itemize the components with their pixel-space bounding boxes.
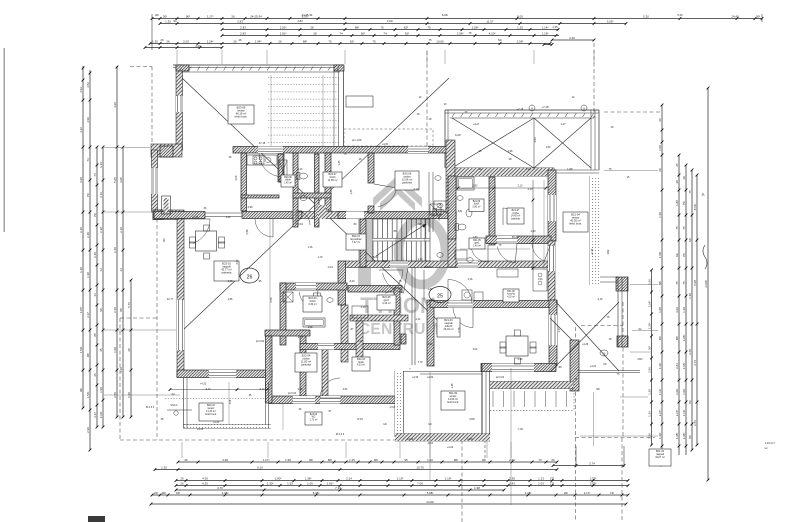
svg-text:12²: 12² [428, 423, 432, 426]
svg-text:2.83: 2.83 [240, 31, 246, 35]
svg-text:75: 75 [427, 25, 431, 29]
svg-text:2.83: 2.83 [237, 19, 243, 23]
svg-text:5,90 m²: 5,90 m² [473, 205, 481, 208]
svg-text:8.03²: 8.03² [302, 14, 309, 18]
svg-text:4.36: 4.36 [79, 127, 83, 133]
svg-text:26: 26 [231, 14, 235, 18]
svg-text:2.17²: 2.17² [584, 491, 591, 495]
svg-text:parketta: parketta [511, 217, 520, 220]
svg-text:5.08: 5.08 [693, 280, 697, 286]
svg-text:4.70: 4.70 [217, 486, 223, 490]
svg-text:26: 26 [184, 458, 188, 462]
svg-text:2.27²: 2.27² [658, 410, 662, 417]
svg-text:1.93: 1.93 [287, 481, 293, 485]
svg-text:2.03: 2.03 [183, 39, 189, 43]
svg-text:1,64²: 1,64² [647, 301, 651, 308]
svg-text:8,23: 8,23 [350, 280, 355, 283]
svg-text:8,23²: 8,23² [455, 134, 461, 137]
svg-text:1,38: 1,38 [647, 389, 651, 395]
svg-text:M 3,3 II: M 3,3 II [146, 406, 155, 409]
svg-text:-0,33: -0,33 [427, 442, 433, 445]
svg-text:1,40 m²: 1,40 m² [473, 244, 481, 247]
svg-text:+4,25: +4,25 [192, 216, 199, 219]
svg-text:28: 28 [127, 348, 131, 352]
svg-text:24.08: 24.08 [704, 280, 708, 288]
svg-text:1.27: 1.27 [560, 122, 566, 126]
svg-text:2.18: 2.18 [99, 227, 103, 233]
svg-text:12²: 12² [603, 363, 607, 366]
svg-text:1.38: 1.38 [86, 272, 90, 278]
svg-text:1,36²: 1,36² [647, 323, 651, 330]
svg-text:-0,33: -0,33 [389, 406, 395, 409]
svg-text:90²: 90² [186, 14, 190, 18]
svg-text:1.08: 1.08 [658, 307, 662, 313]
svg-text:B24: B24 [383, 260, 388, 263]
svg-text:1,50: 1,50 [538, 278, 543, 281]
svg-text:M 16: M 16 [357, 418, 363, 421]
svg-text:2,91²: 2,91² [387, 19, 393, 23]
svg-text:56²: 56² [596, 388, 600, 391]
svg-text:1,25: 1,25 [552, 25, 558, 29]
svg-text:27²: 27² [550, 481, 554, 485]
svg-text:2.40: 2.40 [93, 252, 97, 258]
svg-text:44,07 m²: 44,07 m² [655, 456, 665, 459]
svg-text:-0,34: -0,34 [297, 223, 303, 226]
svg-text:2,10: 2,10 [361, 306, 366, 309]
svg-text:1.38²: 1.38² [682, 433, 686, 440]
svg-text:255-00: 255-00 [424, 266, 432, 269]
svg-text:1.08: 1.08 [658, 145, 662, 151]
svg-text:2.40: 2.40 [79, 227, 83, 233]
svg-text:parketta: parketta [301, 363, 311, 367]
svg-text:2.38: 2.38 [509, 476, 515, 480]
svg-text:3.02: 3.02 [675, 307, 679, 313]
svg-text:42,77: 42,77 [167, 298, 174, 301]
svg-text:7.06: 7.06 [417, 481, 423, 485]
svg-text:1,70: 1,70 [318, 256, 323, 259]
svg-text:62²: 62² [350, 39, 354, 43]
svg-text:4,33 m²: 4,33 m² [382, 302, 391, 305]
svg-text:74²: 74² [610, 491, 614, 495]
svg-text:88: 88 [119, 308, 123, 312]
svg-text:44,01 m²: 44,01 m² [443, 327, 453, 331]
svg-text:+4,20: +4,20 [427, 376, 434, 379]
svg-text:75: 75 [682, 226, 686, 230]
svg-text:2,10: 2,10 [518, 185, 523, 188]
svg-text:25: 25 [99, 348, 103, 352]
svg-text:6(6): 6(6) [328, 210, 333, 213]
svg-text:2.27²: 2.27² [675, 410, 679, 417]
svg-text:1.03: 1.03 [538, 481, 544, 485]
svg-text:2,11: 2,11 [416, 318, 421, 321]
svg-text:+4,01: +4,01 [590, 364, 597, 368]
svg-text:30: 30 [675, 180, 679, 184]
svg-text:1,17: 1,17 [358, 340, 363, 343]
svg-text:10.70: 10.70 [416, 465, 424, 469]
svg-text:75: 75 [469, 31, 472, 35]
svg-text:90²: 90² [162, 491, 166, 495]
svg-text:1,98: 1,98 [508, 150, 513, 153]
svg-text:98²: 98² [86, 353, 90, 357]
svg-text:3.74: 3.74 [589, 461, 595, 465]
svg-text:2,98: 2,98 [298, 388, 303, 391]
svg-text:8,03²: 8,03² [442, 13, 448, 17]
svg-text:4,51: 4,51 [343, 388, 348, 391]
svg-text:90²: 90² [374, 458, 378, 462]
svg-text:8.10: 8.10 [257, 465, 263, 469]
svg-text:62²: 62² [688, 238, 692, 242]
svg-text:A: A [702, 192, 705, 197]
svg-text:75: 75 [380, 25, 384, 29]
svg-text:1,66²: 1,66² [567, 168, 573, 171]
svg-text:36²: 36² [647, 346, 651, 350]
svg-text:3.55²: 3.55² [590, 481, 597, 485]
svg-text:3.20: 3.20 [569, 36, 575, 40]
svg-text:1,40 m²: 1,40 m² [284, 181, 292, 184]
svg-text:74: 74 [86, 158, 90, 162]
svg-text:1,72 m²: 1,72 m² [310, 418, 318, 421]
svg-text:75: 75 [682, 281, 686, 285]
svg-text:térkő burk.: térkő burk. [205, 413, 217, 416]
svg-text:2.56²: 2.56² [517, 39, 524, 43]
svg-text:2.40: 2.40 [509, 458, 515, 462]
svg-text:1.50: 1.50 [658, 212, 662, 218]
svg-text:parketta: parketta [402, 181, 412, 185]
svg-text:2,16: 2,16 [598, 298, 603, 301]
svg-text:30²: 30² [756, 14, 760, 18]
svg-text:79²: 79² [682, 253, 686, 257]
svg-text:4,40: 4,40 [531, 230, 536, 233]
svg-text:1.38²: 1.38² [305, 476, 312, 480]
svg-text:4.10²: 4.10² [489, 31, 496, 35]
svg-text:62²: 62² [405, 31, 409, 35]
svg-text:5,20: 5,20 [677, 13, 683, 17]
svg-text:26: 26 [166, 39, 170, 43]
svg-text:14: 14 [119, 268, 123, 272]
svg-text:1.00: 1.00 [675, 389, 679, 395]
svg-text:26: 26 [180, 476, 184, 480]
svg-text:5.76: 5.76 [127, 302, 131, 308]
svg-text:4.48: 4.48 [222, 458, 228, 462]
svg-text:26: 26 [551, 458, 555, 462]
svg-text:1.91²: 1.91² [327, 481, 334, 485]
svg-text:3.98: 3.98 [79, 177, 83, 183]
svg-text:2.91²: 2.91² [280, 25, 287, 29]
svg-text:+4,33: +4,33 [213, 421, 220, 424]
svg-text:34²: 34² [176, 491, 180, 495]
svg-text:1,50: 1,50 [308, 326, 313, 329]
svg-text:1,46: 1,46 [451, 383, 454, 388]
svg-text:1,35: 1,35 [350, 189, 353, 194]
svg-text:3.10: 3.10 [119, 367, 123, 373]
svg-text:3,06: 3,06 [235, 175, 238, 180]
svg-text:1.25: 1.25 [349, 458, 355, 462]
svg-text:4,40: 4,40 [226, 216, 231, 219]
svg-text:70: 70 [538, 458, 542, 462]
svg-text:2.90: 2.90 [86, 427, 90, 433]
svg-text:1,40: 1,40 [428, 343, 433, 346]
svg-text:36²: 36² [764, 447, 767, 450]
svg-text:2.40: 2.40 [86, 232, 90, 238]
svg-text:2,16: 2,16 [468, 278, 473, 281]
svg-text:+4,27: +4,27 [473, 122, 480, 126]
svg-text:3,02: 3,02 [473, 348, 478, 351]
svg-text:7.34: 7.34 [335, 486, 341, 490]
svg-text:74: 74 [93, 173, 97, 177]
svg-text:+2,16: +2,16 [591, 248, 594, 255]
svg-text:2.18: 2.18 [119, 227, 123, 233]
svg-text:1.19²: 1.19² [542, 31, 549, 35]
svg-text:1,86: 1,86 [228, 298, 233, 301]
svg-text:26: 26 [247, 275, 253, 281]
svg-text:74: 74 [339, 31, 343, 35]
svg-text:3.74: 3.74 [693, 360, 697, 366]
svg-text:74: 74 [383, 31, 387, 35]
svg-text:98: 98 [99, 308, 103, 312]
svg-text:2,64: 2,64 [438, 215, 441, 220]
svg-text:M12: M12 [607, 249, 610, 254]
svg-text:5.98²: 5.98² [427, 491, 434, 495]
svg-text:90²: 90² [163, 238, 166, 242]
svg-text:2.56: 2.56 [693, 420, 697, 426]
svg-text:4.30: 4.30 [202, 476, 208, 480]
svg-text:1.35: 1.35 [152, 39, 158, 43]
svg-text:28: 28 [658, 168, 662, 172]
svg-text:M13: M13 [638, 358, 643, 361]
svg-text:+4,30: +4,30 [382, 143, 389, 146]
svg-text:konyha: konyha [507, 294, 515, 296]
svg-text:-7,30: -7,30 [517, 428, 523, 431]
svg-text:4,23 m²: 4,23 m² [357, 364, 365, 367]
svg-text:26: 26 [278, 39, 282, 43]
svg-text:B22: B22 [373, 256, 378, 259]
svg-text:-0,24: -0,24 [327, 266, 333, 269]
svg-text:62²: 62² [404, 25, 408, 29]
svg-text:8.38²: 8.38² [313, 491, 320, 495]
svg-text:2,98: 2,98 [248, 206, 253, 209]
svg-text:2.83: 2.83 [240, 25, 246, 29]
svg-text:1.38: 1.38 [79, 267, 83, 273]
svg-text:1,35: 1,35 [338, 160, 341, 165]
svg-text:2,54: 2,54 [230, 399, 232, 404]
svg-text:1,17: 1,17 [558, 327, 561, 332]
svg-text:89²: 89² [303, 39, 307, 43]
svg-text:2.24: 2.24 [346, 476, 352, 480]
svg-text:3.17: 3.17 [86, 312, 90, 318]
svg-text:8.19²: 8.19² [693, 204, 697, 211]
svg-text:1.90: 1.90 [113, 347, 117, 353]
svg-text:4.52: 4.52 [86, 82, 90, 88]
svg-text:1.05: 1.05 [307, 481, 313, 485]
svg-text:előtér: előtér [285, 179, 291, 182]
svg-text:8,10: 8,10 [206, 388, 211, 391]
svg-text:1.24²: 1.24² [207, 39, 214, 43]
svg-text:1.17²: 1.17² [263, 458, 270, 462]
svg-text:+4,20: +4,20 [447, 446, 454, 449]
svg-text:26: 26 [180, 481, 184, 485]
svg-text:1,90: 1,90 [473, 185, 478, 188]
svg-text:1.50²: 1.50² [79, 347, 83, 354]
svg-text:2,98: 2,98 [246, 229, 249, 234]
svg-text:1.00: 1.00 [682, 389, 686, 395]
svg-text:30²: 30² [155, 13, 159, 17]
svg-text:2,39: 2,39 [518, 358, 523, 361]
svg-text:75: 75 [675, 226, 679, 230]
svg-text:1.98²: 1.98² [682, 335, 686, 342]
svg-text:+4,33: +4,33 [197, 428, 204, 431]
svg-text:3.05: 3.05 [119, 177, 123, 183]
svg-text:6(6): 6(6) [298, 210, 303, 213]
svg-text:75: 75 [688, 190, 692, 194]
svg-text:26²: 26² [564, 491, 568, 495]
svg-text:+7,18: +7,18 [541, 105, 549, 109]
svg-text:7,47 m²: 7,47 m² [352, 241, 361, 244]
svg-text:1.90²: 1.90² [275, 476, 282, 480]
svg-text:2,54: 2,54 [270, 297, 273, 302]
svg-text:26: 26 [161, 38, 164, 42]
svg-text:parketta: parketta [222, 271, 232, 275]
svg-text:1.34²: 1.34² [255, 39, 262, 43]
svg-text:1.19³: 1.19³ [445, 476, 452, 480]
svg-text:6(6): 6(6) [458, 210, 463, 213]
svg-text:24-25-34: 24-25-34 [250, 14, 262, 18]
svg-text:1.36: 1.36 [99, 162, 103, 168]
svg-text:1.13²: 1.13² [397, 476, 404, 480]
svg-text:79²: 79² [93, 213, 97, 217]
svg-text:B21-06: B21-06 [473, 201, 481, 203]
svg-text:95: 95 [404, 458, 408, 462]
svg-text:6,20: 6,20 [298, 168, 303, 171]
svg-text:88²: 88² [658, 281, 662, 285]
svg-text:pö 0,00: pö 0,00 [496, 376, 505, 379]
svg-text:1.35: 1.35 [165, 19, 171, 23]
svg-text:86²: 86² [454, 458, 458, 462]
svg-text:14: 14 [99, 268, 103, 272]
svg-text:11.57: 11.57 [486, 19, 493, 23]
svg-text:28: 28 [310, 25, 314, 29]
svg-text:24.69: 24.69 [426, 500, 434, 504]
svg-text:60²: 60² [361, 31, 365, 35]
svg-text:5.05: 5.05 [113, 177, 117, 183]
svg-text:1.38: 1.38 [688, 293, 692, 299]
svg-text:1,10: 1,10 [418, 258, 423, 261]
svg-text:62²: 62² [675, 253, 679, 257]
svg-text:59-30: 59-30 [512, 236, 519, 239]
svg-text:3.55²: 3.55² [607, 19, 614, 23]
svg-text:47.18: 47.18 [259, 142, 266, 145]
svg-text:B23-02: B23-02 [310, 414, 318, 416]
svg-text:M: M [575, 378, 577, 381]
svg-text:2,10: 2,10 [414, 188, 419, 191]
svg-text:1.13: 1.13 [538, 476, 544, 480]
svg-text:2,10: 2,10 [528, 188, 533, 191]
svg-text:24²: 24² [154, 491, 158, 495]
svg-text:térkő burk.: térkő burk. [447, 401, 459, 404]
svg-text:36²: 36² [482, 458, 486, 462]
svg-text:27²: 27² [550, 476, 554, 480]
svg-text:8.00: 8.00 [517, 14, 523, 18]
svg-text:1.17²: 1.17² [207, 14, 214, 18]
svg-text:2,66: 2,66 [647, 279, 651, 285]
svg-text:4.30: 4.30 [202, 481, 208, 485]
svg-text:3.16: 3.16 [99, 192, 103, 198]
svg-text:+4,33: +4,33 [200, 383, 207, 386]
svg-text:28: 28 [313, 31, 317, 35]
svg-text:45,84: 45,84 [367, 211, 374, 214]
svg-text:WC: WC [312, 417, 316, 419]
svg-text:79²: 79² [86, 193, 90, 197]
svg-text:3.17: 3.17 [93, 412, 97, 418]
svg-text:86²: 86² [658, 336, 662, 340]
svg-text:86²: 86² [328, 458, 332, 462]
svg-text:62²: 62² [498, 38, 502, 42]
svg-text:30: 30 [682, 176, 686, 180]
svg-text:1.13²: 1.13² [682, 410, 686, 417]
svg-text:1.34²: 1.34² [658, 363, 662, 370]
svg-text:30²: 30² [558, 366, 562, 369]
svg-text:2,98: 2,98 [228, 280, 233, 283]
svg-text:5.20: 5.20 [643, 14, 649, 18]
svg-text:1.68²: 1.68² [658, 252, 662, 259]
svg-text:75: 75 [372, 39, 376, 43]
svg-text:2.40: 2.40 [113, 247, 117, 253]
svg-text:26: 26 [239, 38, 242, 42]
svg-text:4,49 2,17: 4,49 2,17 [765, 442, 776, 445]
svg-text:B23-06: B23-06 [284, 177, 292, 179]
svg-text:1,16: 1,16 [308, 246, 313, 249]
svg-text:2,96: 2,96 [647, 367, 651, 373]
svg-text:1.90: 1.90 [285, 458, 291, 462]
svg-text:26: 26 [658, 118, 662, 122]
svg-text:2,73: 2,73 [298, 336, 303, 339]
svg-text:10.60: 10.60 [436, 39, 444, 43]
svg-text:3,40: 3,40 [236, 259, 239, 264]
svg-text:4,33 m²: 4,33 m² [507, 295, 515, 298]
svg-text:B21-08: B21-08 [507, 291, 515, 293]
svg-text:25: 25 [675, 163, 679, 167]
svg-text:2.91²: 2.91² [280, 31, 287, 35]
svg-text:2.68: 2.68 [688, 349, 692, 355]
svg-text:4.52: 4.52 [79, 87, 83, 93]
svg-text:pö 0,00: pö 0,00 [256, 340, 265, 343]
svg-text:11,55 m²: 11,55 m² [328, 179, 338, 182]
svg-text:M13,3: M13,3 [171, 404, 178, 407]
svg-text:2.43: 2.43 [509, 481, 515, 485]
svg-text:+7,18: +7,18 [517, 108, 524, 111]
svg-text:1.25: 1.25 [517, 25, 523, 29]
svg-text:1,80: 1,80 [473, 236, 478, 239]
svg-text:36²: 36² [688, 435, 692, 439]
svg-text:2,83: 2,83 [297, 19, 303, 23]
svg-text:1.30²: 1.30² [267, 481, 274, 485]
svg-text:3.07²: 3.07² [79, 307, 83, 314]
svg-text:M 3,3 II: M 3,3 II [336, 433, 345, 436]
svg-text:B21-05: B21-05 [473, 240, 481, 242]
svg-text:25: 25 [93, 373, 97, 377]
svg-text:75: 75 [675, 281, 679, 285]
svg-text:4,83²: 4,83² [469, 418, 475, 421]
svg-text:térkő burk.: térkő burk. [569, 222, 582, 226]
svg-text:1.38²: 1.38² [675, 433, 679, 440]
svg-text:4,84: 4,84 [428, 288, 433, 291]
svg-text:24.49: 24.49 [731, 14, 739, 18]
svg-text:2.18: 2.18 [113, 307, 117, 313]
svg-text:7,70: 7,70 [418, 361, 423, 364]
svg-text:4.38²: 4.38² [222, 491, 229, 495]
svg-text:4.28²: 4.28² [525, 491, 532, 495]
svg-text:1.90: 1.90 [99, 387, 103, 393]
svg-text:75: 75 [328, 39, 332, 43]
